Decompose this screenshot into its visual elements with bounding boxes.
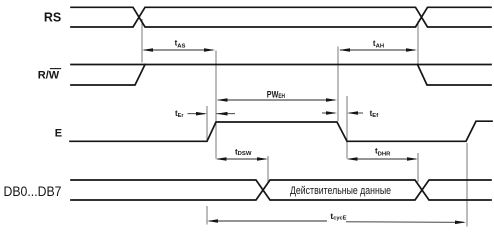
svg-text:Действительные данные: Действительные данные: [290, 185, 391, 197]
svg-text:DB0...DB7: DB0...DB7: [4, 184, 62, 199]
svg-text:RS: RS: [44, 11, 61, 25]
svg-text:E: E: [55, 128, 62, 140]
svg-text:R/W: R/W: [38, 70, 60, 82]
